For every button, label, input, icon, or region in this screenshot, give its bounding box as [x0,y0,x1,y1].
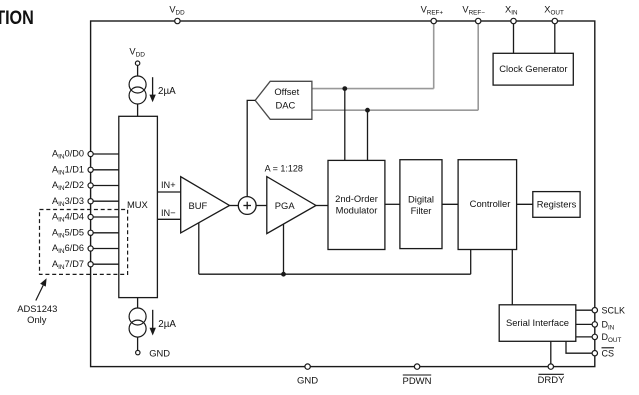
wire current source to MUX top [137,104,139,116]
wire MUX IN- to BUF [157,208,180,219]
wire BUF bottom feedback [198,223,200,275]
pin terminal AIN4 [88,214,93,219]
svg-text:PGA: PGA [275,200,296,211]
pin terminal AIN7 [88,262,93,267]
wire serial interface to SCLK [576,309,595,311]
wire AIN6 to MUX [91,248,119,250]
chip outline [91,21,595,367]
pin SCLK [592,306,625,316]
junction dot feedback [281,272,286,277]
pin terminal AIN6 [88,246,93,251]
VDD bias source: net symbol [129,47,145,66]
svg-text:PDWN: PDWN [402,376,431,387]
serial interface box [499,305,576,342]
wire serial interface to DIN [576,323,595,325]
wire AIN0 to MUX [91,153,119,155]
wire AIN3 to MUX [91,200,119,202]
MUX box [119,116,158,297]
pin VDD (top) [169,5,185,24]
svg-text:GND: GND [149,348,170,359]
svg-text:Modulator: Modulator [336,205,378,216]
svg-text:CS: CS [602,349,615,359]
wire modulator to digital filter [385,203,400,205]
junction dot VREF- tap [365,108,370,113]
svg-text:DAC: DAC [276,100,296,111]
pin CS (active low) [592,348,614,359]
wire VREF- horizontal to Offset DAC (gray) [312,109,478,111]
svg-text:2µA: 2µA [158,319,176,330]
svg-text:Digital: Digital [408,193,434,204]
wire VREF- tap to modulator [367,110,369,160]
wire rail to controller [470,250,472,275]
GND net symbol [136,348,171,359]
2nd-order modulator box [328,160,385,249]
svg-text:ADS1243: ADS1243 [17,303,57,314]
pin VREF+ (top) [421,5,444,24]
wire summing node to PGA [256,205,267,207]
pin DOUT [592,332,621,344]
wire feedback rail [199,273,471,275]
wire BUF to summing node [230,205,239,207]
registers box [533,192,580,218]
svg-text:Clock Generator: Clock Generator [499,63,567,74]
pin DIN [592,320,615,332]
wire AIN4 to MUX [91,216,119,218]
pin terminal AIN1 [88,167,93,172]
wire VDD symbol to current source [137,65,139,76]
junction dot VREF+ tap [342,86,347,91]
wire offset DAC to summing node [247,100,255,196]
wire controller to registers [517,203,533,205]
pin XOUT (top) [544,5,564,24]
svg-text:MUX: MUX [127,199,149,210]
wire digital filter to controller [442,203,458,205]
svg-text:2nd-Order: 2nd-Order [335,193,378,204]
svg-text:SCLK: SCLK [602,306,626,316]
wire controller to serial interface [511,250,513,305]
svg-text:TION: TION [0,7,34,29]
pin terminal AIN5 [88,230,93,235]
wire serial interface to CS [566,341,595,353]
svg-text:Only: Only [27,314,47,325]
wire XOUT to clock generator [554,21,556,53]
annotation arrow [36,278,47,300]
wire VREF+ vertical (gray) [433,21,435,89]
wire VREF+ horizontal to Offset DAC (gray) [312,88,434,90]
wire AIN5 to MUX [91,232,119,234]
arrow 2uA top [149,77,176,102]
svg-text:Registers: Registers [537,198,577,209]
wire serial interface to DOUT [576,336,595,338]
pin terminal AIN3 [88,199,93,204]
current source I2 (2uA bottom) [129,308,146,337]
svg-text:A = 1:128: A = 1:128 [265,164,303,174]
wire VREF- vertical (gray) [477,21,479,110]
dashed box ADS1243 only inputs [40,210,128,275]
wire XIN to clock generator [513,21,515,53]
offset DAC [255,81,312,119]
wire PGA bottom feedback [283,224,285,274]
summing node [238,197,256,215]
op-amp BUF [181,177,230,233]
op-amp PGA [267,177,316,234]
svg-text:Controller: Controller [470,198,511,209]
svg-text:Filter: Filter [411,205,432,216]
current source I1 (2uA top) [129,76,146,104]
ADS1243 Only annotation [17,303,57,325]
controller box [458,160,516,250]
svg-text:IN+: IN+ [161,180,176,190]
arrow 2uA bottom [150,310,177,336]
svg-text:2µA: 2µA [158,86,176,97]
digital filter box [400,160,442,249]
svg-text:Serial Interface: Serial Interface [506,317,569,328]
pin GND (bottom) [297,364,318,386]
svg-text:BUF: BUF [189,200,208,211]
pin terminal AIN2 [88,183,93,188]
pin terminal AIN0 [88,151,93,156]
wire VREF+ tap to modulator [344,89,346,161]
pin DRDY (bottom, active low) [538,364,566,386]
wire AIN7 to MUX [91,263,119,265]
clock generator box [493,53,573,85]
svg-text:GND: GND [297,375,318,386]
wire current source to GND symbol [137,337,139,350]
wire MUX bottom to current source [137,298,139,309]
pin PDWN (bottom, active low) [402,364,431,387]
svg-text:Offset: Offset [274,86,299,97]
svg-text:DRDY: DRDY [538,375,566,386]
svg-text:IN−: IN− [161,208,176,218]
wire AIN1 to MUX [91,169,119,171]
pin XIN (top) [505,5,518,24]
wire serial interface to DRDY [550,341,552,366]
wire MUX IN+ to BUF [157,180,180,192]
pin VREF- (top) [462,5,485,24]
wire AIN2 to MUX [91,185,119,187]
wire PGA to modulator [316,205,328,207]
